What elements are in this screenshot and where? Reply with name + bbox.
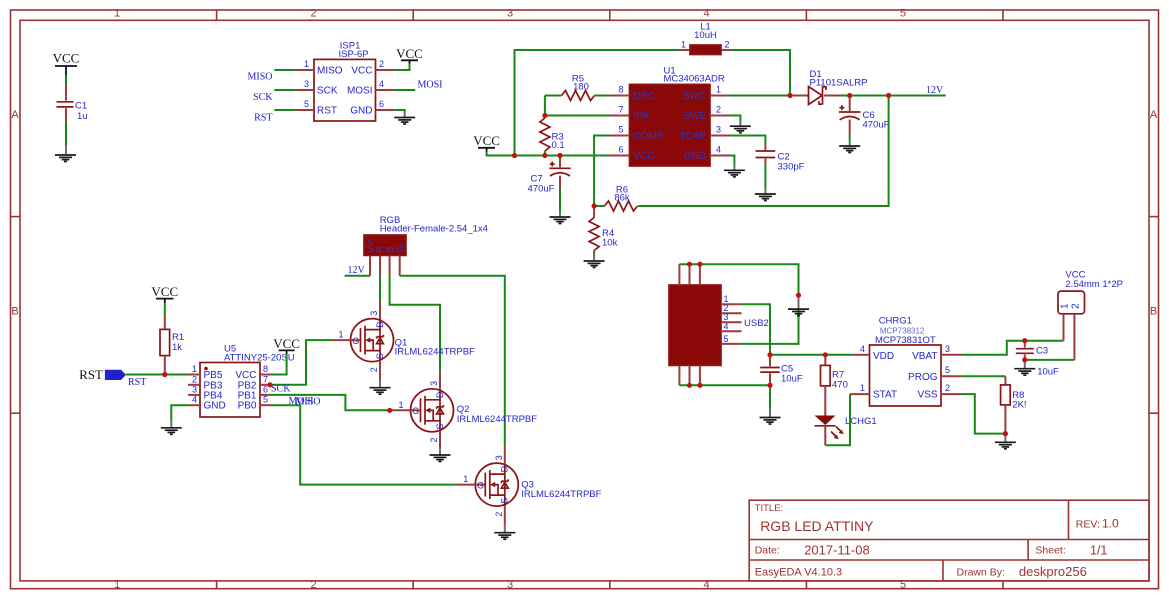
svg-text:4: 4 bbox=[716, 145, 721, 155]
svg-text:DRC: DRC bbox=[634, 91, 656, 102]
svg-text:1: 1 bbox=[114, 8, 120, 20]
svg-text:4: 4 bbox=[860, 344, 865, 354]
svg-text:8: 8 bbox=[618, 85, 623, 95]
svg-text:1.0: 1.0 bbox=[1102, 517, 1119, 531]
svg-text:1: 1 bbox=[1060, 303, 1071, 309]
svg-text:4: 4 bbox=[192, 395, 197, 405]
svg-text:86k: 86k bbox=[614, 193, 630, 204]
svg-text:MOSI: MOSI bbox=[347, 86, 373, 97]
svg-text:5: 5 bbox=[945, 365, 950, 375]
svg-text:VCC: VCC bbox=[351, 66, 372, 77]
svg-text:6: 6 bbox=[379, 99, 384, 109]
svg-text:2: 2 bbox=[945, 383, 950, 393]
svg-text:1: 1 bbox=[114, 579, 120, 591]
svg-text:2K!: 2K! bbox=[1012, 400, 1026, 411]
svg-text:RST: RST bbox=[128, 377, 146, 388]
svg-text:USB2: USB2 bbox=[744, 318, 769, 329]
svg-text:B: B bbox=[11, 306, 18, 318]
svg-text:3: 3 bbox=[507, 8, 513, 20]
svg-text:180: 180 bbox=[573, 82, 589, 93]
svg-text:2017-11-08: 2017-11-08 bbox=[804, 543, 870, 558]
svg-text:2: 2 bbox=[310, 8, 316, 20]
svg-text:MISO: MISO bbox=[296, 397, 321, 408]
svg-text:MCP73831OT: MCP73831OT bbox=[875, 335, 936, 346]
svg-text:1: 1 bbox=[192, 364, 197, 374]
svg-text:EasyEDA V4.10.3: EasyEDA V4.10.3 bbox=[755, 567, 842, 579]
svg-text:IRLML6244TRPBF: IRLML6244TRPBF bbox=[395, 347, 475, 358]
svg-text:5: 5 bbox=[900, 8, 906, 20]
svg-text:330pF: 330pF bbox=[778, 162, 805, 173]
svg-text:RST: RST bbox=[254, 113, 272, 124]
svg-text:VCC: VCC bbox=[634, 151, 655, 162]
svg-text:G: G bbox=[395, 245, 406, 253]
svg-text:A: A bbox=[1150, 109, 1158, 121]
svg-text:12V: 12V bbox=[348, 265, 366, 276]
svg-text:REV:: REV: bbox=[1076, 519, 1100, 531]
svg-text:PROG: PROG bbox=[908, 372, 938, 383]
svg-text:3: 3 bbox=[192, 384, 197, 394]
svg-text:A: A bbox=[11, 109, 19, 121]
svg-text:GND: GND bbox=[684, 151, 706, 162]
svg-text:5: 5 bbox=[263, 395, 268, 405]
svg-text:2: 2 bbox=[716, 105, 721, 115]
svg-text:1/1: 1/1 bbox=[1090, 544, 1107, 558]
svg-text:GND: GND bbox=[350, 106, 372, 117]
svg-text:10k: 10k bbox=[602, 238, 618, 249]
svg-text:STAT: STAT bbox=[873, 390, 897, 401]
svg-text:VCC: VCC bbox=[473, 133, 500, 148]
svg-text:PB0: PB0 bbox=[238, 401, 257, 412]
svg-text:ISP-6P: ISP-6P bbox=[339, 49, 369, 60]
svg-text:7: 7 bbox=[263, 374, 268, 384]
svg-text:C1: C1 bbox=[75, 101, 87, 112]
svg-text:VSS: VSS bbox=[917, 390, 937, 401]
svg-text:5: 5 bbox=[618, 125, 623, 135]
svg-text:Header-Female-2.54_1x4: Header-Female-2.54_1x4 bbox=[380, 224, 488, 235]
svg-text:470uF: 470uF bbox=[528, 184, 555, 195]
svg-text:6: 6 bbox=[263, 384, 268, 394]
svg-text:8: 8 bbox=[263, 364, 268, 374]
svg-text:12V: 12V bbox=[926, 85, 944, 96]
svg-text:COMP: COMP bbox=[634, 131, 664, 142]
svg-text:SCK: SCK bbox=[253, 92, 273, 103]
svg-text:P1101SALRP: P1101SALRP bbox=[810, 78, 868, 89]
svg-text:IRLML6244TRPBF: IRLML6244TRPBF bbox=[521, 489, 601, 500]
svg-text:10uH: 10uH bbox=[694, 30, 717, 41]
svg-text:4: 4 bbox=[379, 79, 384, 89]
svg-text:0.1: 0.1 bbox=[552, 140, 565, 151]
svg-text:2: 2 bbox=[379, 59, 384, 69]
svg-text:C3: C3 bbox=[1036, 346, 1048, 357]
svg-text:10uF: 10uF bbox=[1037, 367, 1059, 378]
svg-text:MC34063ADR: MC34063ADR bbox=[664, 74, 725, 85]
svg-text:RGB LED ATTINY: RGB LED ATTINY bbox=[760, 518, 874, 534]
svg-text:ATTINY25-20SU: ATTINY25-20SU bbox=[224, 353, 295, 364]
svg-text:CHRG1: CHRG1 bbox=[879, 316, 912, 327]
svg-text:6: 6 bbox=[618, 145, 623, 155]
svg-text:Sheet:: Sheet: bbox=[1035, 545, 1065, 557]
svg-text:5: 5 bbox=[724, 334, 729, 344]
svg-text:2: 2 bbox=[192, 374, 197, 384]
svg-text:4: 4 bbox=[724, 321, 729, 331]
svg-text:SWE: SWE bbox=[683, 111, 706, 122]
svg-text:7: 7 bbox=[618, 105, 623, 115]
svg-text:VCC: VCC bbox=[151, 284, 178, 299]
svg-text:4: 4 bbox=[703, 8, 709, 20]
svg-text:TITLE:: TITLE: bbox=[755, 503, 784, 514]
svg-text:IRLML6244TRPBF: IRLML6244TRPBF bbox=[457, 414, 537, 425]
svg-text:4: 4 bbox=[703, 579, 709, 591]
svg-text:VCC: VCC bbox=[273, 336, 300, 351]
svg-text:MOSI: MOSI bbox=[418, 80, 443, 91]
svg-text:3: 3 bbox=[507, 579, 513, 591]
svg-text:VCC: VCC bbox=[396, 46, 423, 61]
svg-text:Drawn By:: Drawn By: bbox=[957, 567, 1005, 579]
svg-text:RST: RST bbox=[317, 106, 337, 117]
svg-text:10uF: 10uF bbox=[781, 374, 803, 385]
svg-text:1: 1 bbox=[716, 85, 721, 95]
svg-text:470uF: 470uF bbox=[863, 120, 890, 131]
svg-text:3: 3 bbox=[716, 125, 721, 135]
svg-text:VCC: VCC bbox=[53, 51, 80, 66]
svg-text:2: 2 bbox=[310, 579, 316, 591]
svg-text:SCK: SCK bbox=[271, 384, 291, 395]
svg-text:SCK: SCK bbox=[317, 86, 338, 97]
svg-text:MISO: MISO bbox=[317, 66, 343, 77]
svg-text:IPK: IPK bbox=[634, 111, 650, 122]
svg-text:deskpro256: deskpro256 bbox=[1019, 564, 1087, 579]
svg-text:B: B bbox=[1150, 306, 1157, 318]
svg-text:VDD: VDD bbox=[873, 351, 894, 362]
svg-text:1: 1 bbox=[681, 40, 686, 50]
svg-text:SWC: SWC bbox=[683, 91, 706, 102]
svg-text:1u: 1u bbox=[77, 111, 88, 122]
svg-text:MISO: MISO bbox=[247, 72, 272, 83]
svg-text:5: 5 bbox=[304, 99, 309, 109]
svg-text:RST: RST bbox=[79, 367, 103, 382]
svg-text:GND: GND bbox=[204, 401, 226, 412]
svg-text:1: 1 bbox=[304, 59, 309, 69]
svg-text:2.54mm 1*2P: 2.54mm 1*2P bbox=[1065, 279, 1123, 290]
svg-text:2: 2 bbox=[725, 40, 730, 50]
svg-text:2: 2 bbox=[1071, 303, 1082, 309]
svg-text:1k: 1k bbox=[172, 342, 182, 353]
svg-text:Date:: Date: bbox=[755, 545, 780, 557]
svg-text:470: 470 bbox=[832, 380, 848, 391]
svg-text:VBAT: VBAT bbox=[912, 351, 937, 362]
svg-text:3: 3 bbox=[945, 344, 950, 354]
svg-text:3: 3 bbox=[304, 79, 309, 89]
svg-text:1: 1 bbox=[860, 383, 865, 393]
svg-text:TCAP: TCAP bbox=[679, 131, 706, 142]
